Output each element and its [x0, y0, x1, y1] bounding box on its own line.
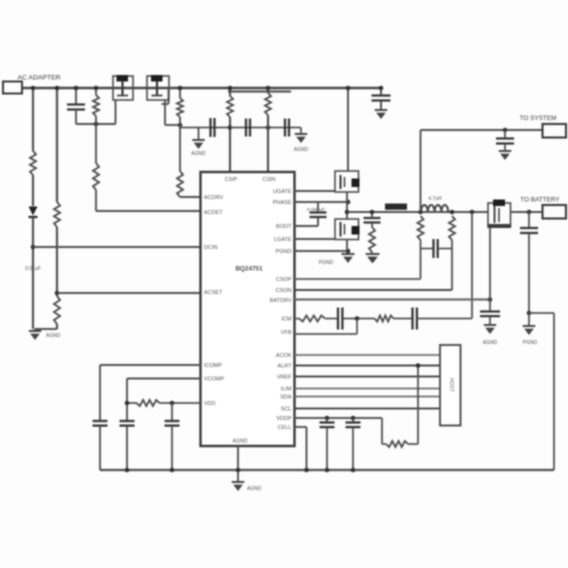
- svg-text:UGATE: UGATE: [273, 189, 292, 195]
- svg-text:VREF: VREF: [277, 375, 292, 381]
- svg-text:VCOMP: VCOMP: [204, 377, 225, 383]
- svg-text:BQ24751: BQ24751: [235, 266, 263, 273]
- svg-text:BATDRV: BATDRV: [270, 298, 292, 304]
- svg-text:PHASE: PHASE: [273, 200, 292, 206]
- svg-text:ILIM: ILIM: [281, 387, 292, 393]
- svg-text:0.068uF: 0.068uF: [307, 207, 325, 213]
- svg-text:0.01uF: 0.01uF: [25, 266, 41, 272]
- svg-text:CSOP: CSOP: [276, 277, 292, 283]
- svg-text:CSON: CSON: [276, 288, 292, 294]
- svg-text:ICM: ICM: [281, 317, 292, 323]
- svg-text:PGND: PGND: [276, 249, 292, 255]
- svg-text:AC ADAPTER: AC ADAPTER: [17, 75, 60, 82]
- svg-text:LGATE: LGATE: [274, 237, 292, 243]
- svg-text:PGND: PGND: [319, 260, 334, 266]
- svg-text:AGND: AGND: [483, 340, 498, 346]
- svg-text:SDA: SDA: [280, 395, 292, 401]
- svg-text:CSIP: CSIP: [225, 177, 238, 183]
- svg-text:ACOK: ACOK: [276, 353, 292, 359]
- svg-text:SCL: SCL: [281, 407, 292, 413]
- svg-text:PGND: PGND: [523, 340, 538, 346]
- svg-text:4.7uH: 4.7uH: [428, 196, 442, 202]
- svg-text:AGND: AGND: [46, 333, 61, 339]
- svg-text:VDD: VDD: [204, 401, 216, 407]
- svg-text:HOST: HOST: [448, 378, 454, 392]
- svg-text:VDDP: VDDP: [276, 416, 292, 422]
- svg-text:TO SYSTEM: TO SYSTEM: [520, 115, 557, 122]
- svg-text:ACSET: ACSET: [204, 290, 223, 296]
- svg-text:DCIN: DCIN: [204, 245, 217, 251]
- svg-text:ICOMP: ICOMP: [204, 363, 222, 369]
- svg-text:AGND: AGND: [294, 147, 309, 153]
- svg-text:ACDRV: ACDRV: [204, 195, 223, 201]
- svg-text:VFB: VFB: [281, 330, 292, 336]
- svg-text:ALRT: ALRT: [278, 364, 293, 370]
- svg-text:AGND: AGND: [233, 439, 248, 445]
- svg-text:TO BATTERY: TO BATTERY: [520, 197, 560, 204]
- svg-text:CSIN: CSIN: [263, 177, 276, 183]
- svg-text:ACDET: ACDET: [204, 210, 223, 216]
- svg-text:AGND: AGND: [191, 151, 206, 157]
- svg-text:AGND: AGND: [247, 486, 262, 492]
- svg-text:CELL: CELL: [278, 425, 292, 431]
- svg-text:BOOT: BOOT: [276, 224, 292, 230]
